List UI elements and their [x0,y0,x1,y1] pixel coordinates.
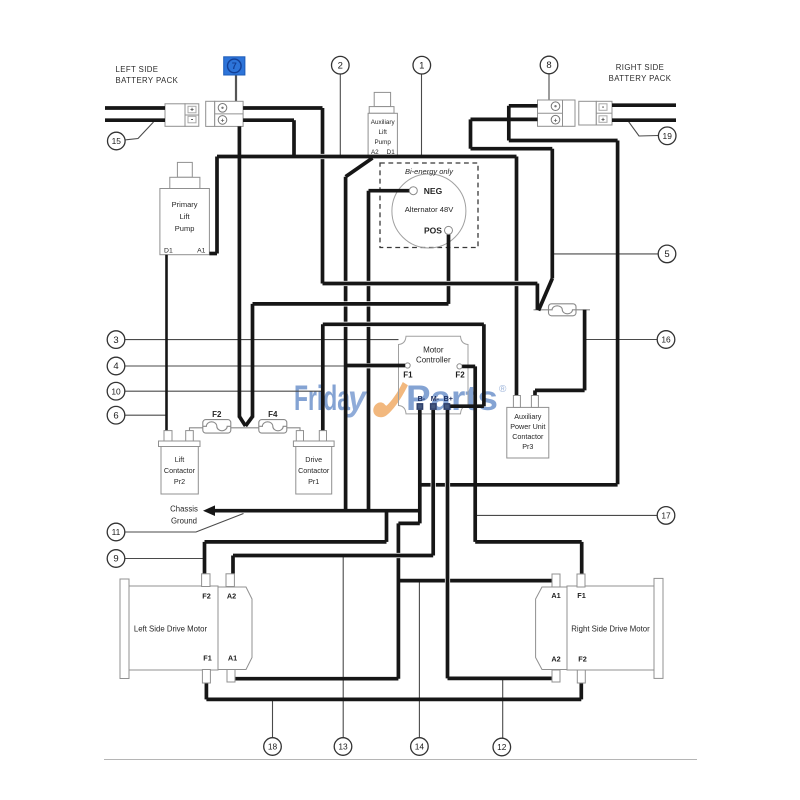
chassis ground bus [203,505,215,516]
svg-text:Auxiliary: Auxiliary [514,412,542,421]
svg-text:BATTERY PACK: BATTERY PACK [116,76,179,85]
svg-text:Pr3: Pr3 [522,442,533,451]
leader line circle 13 [342,556,344,738]
svg-text:POS: POS [424,225,442,235]
leader line circle 3 [125,339,399,341]
svg-text:F1: F1 [403,370,413,379]
svg-text:A1: A1 [551,591,560,600]
right battery pack connector [579,101,597,125]
leader line circle 1 [421,74,423,155]
primary lift pump P1 [177,162,192,177]
svg-text:14: 14 [415,742,425,752]
wire drive contactor right terminal up, over to controller area [321,324,325,430]
leader line circle 16 [585,339,657,341]
svg-text:16: 16 [661,335,671,345]
callout 5 [658,245,676,263]
svg-text:F2: F2 [455,371,465,380]
svg-text:®: ® [499,384,507,395]
svg-text:Pump: Pump [374,139,391,146]
svg-text:7: 7 [232,61,237,71]
svg-text:M-: M- [431,394,440,403]
svg-text:17: 17 [661,511,671,521]
wire y156 bus drop to Pr3 left terminal [515,157,519,281]
leader line circle 12 [502,678,504,738]
callout 6 [107,406,125,424]
svg-text:4: 4 [113,361,118,372]
svg-text:+: + [190,107,194,114]
wire NEG lead [369,189,410,193]
wire 7-connector bottom out: right then down join y156 [243,118,294,122]
Pr3 terminals [513,396,520,408]
svg-text:13: 13 [338,742,348,752]
svg-text:A2: A2 [551,655,560,664]
left motor terminals [202,574,210,587]
lift contactor Pr2 [159,441,201,447]
svg-text:5: 5 [664,249,669,260]
motor controller U1 [399,336,469,414]
callout 17 [657,507,675,525]
right motor terminals [552,574,560,587]
callout 13 [334,738,352,756]
leader line circle 17 [475,514,657,516]
svg-text:6: 6 [113,410,118,421]
callout 12 [493,738,511,756]
svg-text:+: + [554,117,558,124]
svg-text:8: 8 [546,60,551,71]
svg-text:F2: F2 [202,592,211,601]
callout 11 [107,523,125,541]
leader line circle 8 [548,74,550,100]
svg-text:Lift: Lift [180,212,191,221]
right side drive motor [654,578,663,678]
svg-text:1: 1 [419,60,424,71]
wire main bus y=156.5 [217,155,517,159]
wire aux fuse output to Pr3 right terminal [583,310,587,391]
left side drive motor [120,579,129,679]
svg-text:Motor: Motor [423,346,444,355]
left battery pack connector [165,104,185,127]
wire A1-left run [235,677,399,681]
svg-text:Pr1: Pr1 [308,477,319,486]
svg-text:Lift: Lift [175,455,185,464]
svg-text:Contactor: Contactor [512,432,544,441]
svg-text:18: 18 [268,742,278,752]
wire A2 down to ground [344,177,348,281]
wire left battery cables [105,106,165,110]
wire A1 primary pump drop [215,157,219,254]
wire F2 controller riser [462,365,475,369]
svg-text:LEFT SIDE: LEFT SIDE [116,65,159,74]
callout 14 [411,738,429,756]
svg-text:+: + [221,118,225,125]
callout 18 [264,738,282,756]
svg-text:+: + [601,116,605,123]
wire 8-connector plus-terminal run [471,118,538,122]
leader line circle 7 [235,75,237,101]
svg-text:9: 9 [113,554,118,565]
svg-text:Pump: Pump [175,224,195,233]
svg-text:F2: F2 [212,410,222,419]
svg-text:A1: A1 [228,654,237,663]
callout 10 [107,382,125,400]
wire F2ctrl y541.9 to right motor F1 [475,540,582,544]
callout 16 [657,331,675,349]
wire B- to A1-left link [398,522,419,526]
callout 3 [107,331,125,349]
auxiliary lift pump [374,92,390,106]
wire NEG down to chassis ground [367,191,371,281]
callout 19 [658,127,676,145]
leader line circle 14 [418,581,420,738]
svg-text:Auxiliary: Auxiliary [371,119,396,126]
leader line circle 2 [339,74,341,155]
wire A1 cross link to right motor A1 [398,579,445,583]
aux fuse leads [534,309,591,311]
svg-text:Left Side Drive Motor: Left Side Drive Motor [134,625,208,634]
svg-text:A2: A2 [227,592,236,601]
wire D1 pump to lift contactor [165,255,168,431]
svg-text:19: 19 [663,131,673,141]
connector block 8 (right) [538,100,563,126]
wire 7-connector bottom center down to arrow [238,126,242,417]
callout 2 [332,56,350,74]
svg-text:Power Unit: Power Unit [510,422,545,431]
svg-text:Alternator 48V: Alternator 48V [405,205,454,214]
svg-text:12: 12 [497,742,507,752]
svg-text:F1: F1 [203,654,212,663]
svg-text:D1: D1 [164,248,173,255]
drive contactor Pr1 [293,441,334,447]
svg-text:F4: F4 [268,410,278,419]
svg-text:A1: A1 [197,248,206,255]
fuse link wire F2/F4 row [190,428,301,431]
leader line circle 11 [125,514,244,533]
leader line circle 5 [552,253,658,255]
svg-text:10: 10 [111,386,121,396]
svg-text:Lift: Lift [378,129,387,136]
svg-text:Right Side Drive Motor: Right Side Drive Motor [571,625,650,634]
lift contactor terminals [164,431,172,441]
wire chassis branch F2 left motor [385,511,389,542]
leader line circle 10 [125,390,322,392]
svg-text:BATTERY PACK: BATTERY PACK [609,74,672,83]
svg-text:11: 11 [112,527,121,537]
wire POS run left and down to arrow [447,234,451,281]
leader line circle 18 [272,699,274,737]
callout 8 [540,56,558,74]
fuse F4 [259,420,287,434]
leader line circle 6 [125,414,167,416]
alternator dashed box (Bi-energy only) [380,163,478,248]
controller bottom terminals B- M- B+ [417,404,422,409]
NEG terminal [409,187,417,195]
svg-text:Primary: Primary [172,200,198,209]
svg-text:Drive: Drive [305,455,322,464]
callout 15 [108,132,126,150]
wire right battery cables [612,103,676,107]
leader line circle 15 [125,122,154,140]
leader line circle 9 [125,558,204,560]
wire F1 feed [346,364,405,368]
wire M- to A2-left motor [233,554,433,558]
wire bus y484.8 B- to aux riser [420,483,431,487]
wire y=283.5 horizontal to fuse drop [323,282,538,286]
wire 8-connector dot-terminal run [509,104,538,108]
wire controller M- drop [431,410,435,556]
wire B+ to A2-right motor [448,677,553,681]
svg-text:B+: B+ [444,394,453,403]
connector block 7 (left) [206,101,215,126]
bottom grey rule [104,759,697,761]
svg-text:F2: F2 [578,655,587,664]
svg-text:Ground: Ground [171,517,197,526]
callout 4 [107,357,125,375]
svg-text:2: 2 [338,60,343,71]
svg-text:RIGHT SIDE: RIGHT SIDE [616,63,664,72]
svg-text:Contactor: Contactor [164,466,196,475]
callout 7 (highlighted blue) [224,57,245,75]
aux power unit contactor Pr3 [507,407,549,458]
svg-text:15: 15 [112,136,122,146]
wire F1-left to F2-right bottom bus [205,683,209,699]
alternator circle [392,174,466,248]
svg-text:3: 3 [113,335,118,346]
svg-text:Chassis: Chassis [170,505,198,514]
wire aux pump A2 diagonal [346,158,373,177]
watermark FridayParts logo [294,379,507,418]
fuse F2 [203,420,231,434]
leader line circle 4 [125,365,346,367]
callout 9 [107,550,125,568]
wire B+ tie bar [448,404,484,408]
wire controller B+ drop [446,410,450,679]
arrow V convergence into fuse junction [239,417,245,427]
svg-text:B-: B- [418,394,426,403]
svg-text:F1: F1 [577,591,586,600]
svg-text:Pr2: Pr2 [174,477,185,486]
svg-text:Bi-energy only: Bi-energy only [405,167,454,176]
svg-text:NEG: NEG [424,186,443,196]
aux fuse near Pr3 [549,304,577,316]
drive contactor terminals [296,431,303,441]
callout 1 [413,56,431,74]
wire controller B- drop [418,410,422,524]
svg-text:y: y [346,379,367,418]
wire 7-connector top out: right then down to y283 [243,106,322,110]
svg-text:Contactor: Contactor [298,466,330,475]
svg-text:Controller: Controller [416,356,451,365]
leader line circle 19 [628,121,659,136]
